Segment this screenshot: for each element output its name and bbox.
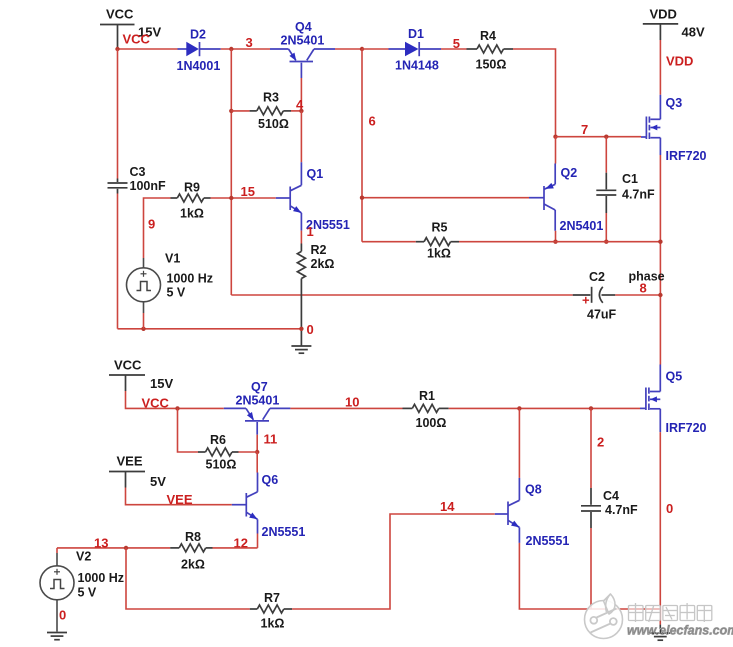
wire VCC to D2 xyxy=(118,48,178,50)
junction node 2 tap xyxy=(589,406,593,410)
wire R9 row corner from V1 xyxy=(144,198,171,258)
wire node 7 down to C1 xyxy=(605,137,607,173)
junction R6 tap xyxy=(175,406,179,410)
svg-text:R2: R2 xyxy=(311,243,327,257)
wire D2 to node 3 xyxy=(221,48,270,50)
svg-text:D2: D2 xyxy=(190,28,206,42)
svg-text:R8: R8 xyxy=(185,530,201,544)
transistor Q1 xyxy=(276,162,350,232)
wire VCC lower to Q7 xyxy=(126,391,224,408)
capacitor C2 xyxy=(573,270,617,322)
junction node 6 base tap xyxy=(360,196,364,200)
svg-text:0: 0 xyxy=(666,501,673,516)
junction node 8 xyxy=(658,293,662,297)
junction node 7 left xyxy=(553,135,557,139)
svg-text:5V: 5V xyxy=(150,474,166,489)
svg-text:47uF: 47uF xyxy=(587,308,617,322)
svg-text:Q5: Q5 xyxy=(666,370,683,384)
svg-text:4.7nF: 4.7nF xyxy=(605,503,638,517)
wire Q4 base down to node 4 xyxy=(300,78,302,111)
svg-text:5 V: 5 V xyxy=(78,586,97,600)
wire Q6 collector up to node 11 xyxy=(256,452,258,473)
svg-text:510Ω: 510Ω xyxy=(258,117,289,131)
resistor R7 xyxy=(250,591,292,631)
power VDD xyxy=(643,7,705,41)
svg-text:2N5551: 2N5551 xyxy=(262,525,306,539)
svg-text:IRF720: IRF720 xyxy=(666,421,707,435)
wire ground rail top section xyxy=(118,328,302,330)
svg-text:48V: 48V xyxy=(682,25,705,40)
transistor Q4 xyxy=(270,20,335,78)
svg-text:VCC: VCC xyxy=(123,32,151,47)
wire R5 rail xyxy=(362,241,416,243)
wire Q4 collector to node 6 junction xyxy=(335,48,362,50)
svg-text:7: 7 xyxy=(581,122,588,137)
wire R3 row xyxy=(231,110,249,112)
MOSFET Q5 xyxy=(640,365,707,436)
resistor R2 xyxy=(297,243,334,346)
wire Q5 source down to ground xyxy=(659,432,661,624)
source V2 xyxy=(40,548,124,632)
svg-text:5 V: 5 V xyxy=(167,286,186,300)
junction at VCC stem xyxy=(115,47,119,51)
junction node 0 top xyxy=(299,327,303,331)
transistor Q6 xyxy=(232,473,306,540)
wire D1 to R4 xyxy=(441,48,467,50)
svg-text:+: + xyxy=(582,293,590,308)
power VCC (lower) xyxy=(109,358,173,392)
svg-text:11: 11 xyxy=(264,432,278,447)
wire junction to D1 xyxy=(362,48,389,50)
wire node 3 down to R3 xyxy=(230,49,232,111)
wire R4 to node 7 corner xyxy=(513,49,556,137)
svg-text:D1: D1 xyxy=(408,27,424,41)
wire node 4 down to Q1 collector xyxy=(300,111,302,162)
wire VDD to Q3 drain xyxy=(659,40,661,95)
svg-text:1kΩ: 1kΩ xyxy=(427,247,451,261)
svg-text:R5: R5 xyxy=(432,221,448,235)
wire node 7 row xyxy=(556,136,642,138)
junction node 7 at C1 xyxy=(604,135,608,139)
resistor R4 xyxy=(467,29,514,72)
junction node 6 top xyxy=(360,47,364,51)
svg-text:R9: R9 xyxy=(184,181,200,195)
svg-text:1kΩ: 1kΩ xyxy=(180,207,204,221)
wire R7 up to node 14 row xyxy=(292,514,495,609)
svg-text:15: 15 xyxy=(241,184,255,199)
svg-text:2: 2 xyxy=(597,435,604,450)
svg-text:1: 1 xyxy=(307,224,314,239)
wire phase row from node 3 branch xyxy=(231,294,572,296)
power VCC (top) xyxy=(100,7,161,48)
svg-text:V1: V1 xyxy=(165,252,180,266)
wire V1 minus to rail xyxy=(143,313,145,329)
svg-text:1N4148: 1N4148 xyxy=(395,59,439,73)
svg-text:1000 Hz: 1000 Hz xyxy=(167,272,214,286)
watermark logo circle xyxy=(585,594,623,639)
svg-text:2N5401: 2N5401 xyxy=(236,394,280,408)
junction node 3 xyxy=(229,47,233,51)
transistor Q2 xyxy=(529,164,603,234)
wire node 10 row to R1 xyxy=(290,407,402,409)
watermark text dian zi fa shao you (stylized glyphs) xyxy=(629,603,712,622)
svg-text:Q6: Q6 xyxy=(262,473,279,487)
wire R6 to node 11 xyxy=(239,451,258,453)
svg-text:150Ω: 150Ω xyxy=(476,58,507,72)
svg-text:14: 14 xyxy=(440,499,455,514)
svg-text:2N5551: 2N5551 xyxy=(526,534,570,548)
svg-text:C4: C4 xyxy=(603,489,619,503)
wire Q2 base row from node 6 xyxy=(362,197,529,199)
resistor R5 xyxy=(416,221,459,261)
wire Q1 emitter to R2 xyxy=(300,231,302,244)
junction C1 bottom xyxy=(604,240,608,244)
resistor R3 xyxy=(250,91,291,132)
diode D2 xyxy=(177,28,221,74)
wire C4 branch xyxy=(590,408,592,488)
ground (V2) xyxy=(47,633,67,640)
svg-text:Q3: Q3 xyxy=(666,96,683,110)
svg-text:13: 13 xyxy=(94,536,108,551)
power VEE xyxy=(109,454,166,490)
svg-text:510Ω: 510Ω xyxy=(206,458,237,472)
svg-text:100Ω: 100Ω xyxy=(416,416,447,430)
svg-text:R4: R4 xyxy=(480,29,496,43)
wire R3 to node 4 xyxy=(291,110,301,112)
svg-text:6: 6 xyxy=(369,114,376,129)
resistor R9 xyxy=(171,181,211,221)
transistor Q8 xyxy=(495,478,570,548)
wire R6 branch xyxy=(178,408,199,452)
junction node 4 xyxy=(299,109,303,113)
svg-text:9: 9 xyxy=(148,217,155,232)
wire C4 down to bottom row xyxy=(590,528,592,609)
capacitor C3 xyxy=(108,165,166,194)
wire node 3 branch down to phase row xyxy=(230,111,232,295)
wire C1 down to R5 rail xyxy=(605,213,607,242)
svg-text:0: 0 xyxy=(307,322,314,337)
junction R5 rail right xyxy=(658,240,662,244)
svg-text:IRF720: IRF720 xyxy=(666,149,707,163)
wire R1 to Q5 gate xyxy=(449,407,640,409)
svg-text:R3: R3 xyxy=(263,91,279,105)
svg-text:Q2: Q2 xyxy=(561,166,578,180)
svg-text:VEE: VEE xyxy=(117,454,143,469)
svg-text:VDD: VDD xyxy=(650,7,677,22)
svg-text:R6: R6 xyxy=(210,433,226,447)
svg-text:2N5401: 2N5401 xyxy=(281,34,325,48)
wire R8 to Q6 emitter xyxy=(213,547,258,549)
wire VEE to Q6 base xyxy=(126,488,232,505)
resistor R6 xyxy=(198,433,239,472)
svg-text:100nF: 100nF xyxy=(130,179,166,193)
svg-text:3: 3 xyxy=(246,35,253,50)
diode D1 xyxy=(389,27,442,73)
wire VCC junction down to C3 xyxy=(117,49,119,179)
svg-text:VDD: VDD xyxy=(666,54,693,69)
resistor R8 xyxy=(170,530,212,572)
svg-text:1000 Hz: 1000 Hz xyxy=(78,571,125,585)
junction node 15 xyxy=(229,196,233,200)
junction R3 tap xyxy=(229,109,233,113)
svg-text:2kΩ: 2kΩ xyxy=(311,257,335,271)
svg-text:Q1: Q1 xyxy=(307,167,324,181)
svg-text:C2: C2 xyxy=(589,270,605,284)
svg-text:VCC: VCC xyxy=(106,7,134,22)
ground (top section) xyxy=(291,346,311,353)
wire Q8 emitter down to bottom row xyxy=(519,543,660,609)
svg-text:Q8: Q8 xyxy=(525,483,542,497)
wire Q8 collector xyxy=(518,408,520,478)
wire node 13 row xyxy=(57,547,170,549)
svg-text:Q7: Q7 xyxy=(251,380,268,394)
wire node 13 down to R7 row xyxy=(126,548,250,609)
wire Q2 emitter up to node 7 xyxy=(555,137,557,164)
svg-text:0: 0 xyxy=(59,608,66,623)
svg-text:2kΩ: 2kΩ xyxy=(181,558,205,572)
wire Q6 emitter down to node 12 xyxy=(257,534,259,548)
source V1 xyxy=(127,252,214,314)
svg-text:R1: R1 xyxy=(419,389,435,403)
svg-text:www.elecfans.com: www.elecfans.com xyxy=(627,624,733,638)
wire R9 to Q1 base xyxy=(211,197,276,199)
svg-text:2N5401: 2N5401 xyxy=(560,219,604,233)
svg-text:Q4: Q4 xyxy=(295,20,312,34)
junction node 13 xyxy=(124,546,128,550)
capacitor C4 xyxy=(581,488,638,528)
svg-text:4.7nF: 4.7nF xyxy=(622,188,655,202)
svg-text:C3: C3 xyxy=(130,165,146,179)
transistor Q7 xyxy=(224,380,291,435)
junction Q8 collector tap xyxy=(517,406,521,410)
svg-text:R7: R7 xyxy=(264,591,280,605)
svg-text:10: 10 xyxy=(345,395,359,410)
svg-text:V2: V2 xyxy=(76,550,91,564)
wire Q7 base down to node 11 xyxy=(256,435,258,452)
svg-text:VCC: VCC xyxy=(114,358,142,373)
wire node 6 vertical xyxy=(361,49,363,242)
wire C2 to right rail xyxy=(615,294,660,296)
wire Q2 collector down to R5 rail xyxy=(555,231,557,242)
junction V1 minus xyxy=(141,327,145,331)
svg-text:4: 4 xyxy=(296,97,304,112)
svg-text:C1: C1 xyxy=(622,172,638,186)
capacitor C1 xyxy=(596,172,655,213)
junction Q2 collector rail xyxy=(553,240,557,244)
wire R5 to right rail xyxy=(459,241,660,243)
wire C3 down to ground rail xyxy=(117,194,119,329)
resistor R1 xyxy=(403,389,449,430)
wire Q3 source down right rail xyxy=(659,155,661,365)
ground (right rail) xyxy=(650,625,670,641)
svg-text:1N4001: 1N4001 xyxy=(177,59,221,73)
svg-text:15V: 15V xyxy=(150,376,173,391)
svg-text:1kΩ: 1kΩ xyxy=(261,617,285,631)
svg-text:8: 8 xyxy=(640,281,647,296)
junction node 11 xyxy=(255,450,259,454)
MOSFET Q3 xyxy=(641,95,707,163)
